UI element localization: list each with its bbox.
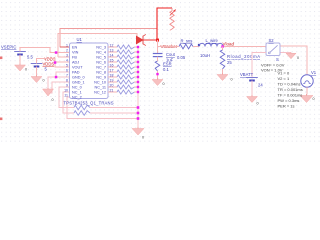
inductor L_wire 10uH (199, 43, 223, 46)
svg-text:25: 25 (227, 60, 232, 65)
svg-text:4: 4 (66, 59, 68, 63)
svg-text:0.1: 0.1 (163, 67, 169, 72)
svg-text:V2 = 1: V2 = 1 (278, 76, 290, 81)
svg-text:PW = 0.3ms: PW = 0.3ms (278, 98, 300, 103)
wire PAD to GND_0 (56, 72, 70, 77)
svg-text:V1: V1 (311, 70, 317, 75)
svg-text:S: S (276, 57, 279, 62)
resistor R_sns 0.05 (179, 44, 193, 49)
svg-text:1: 1 (66, 44, 68, 48)
wire EN row (60, 46, 70, 48)
wire Vtracker to R_sns (158, 40, 178, 47)
node dot below ESR (156, 73, 158, 75)
wire Vtracker vertical to diode junction (157, 8, 172, 41)
node Vload junction (221, 45, 224, 48)
svg-text:0: 0 (25, 68, 27, 72)
capacitor Cout 1uF (153, 53, 163, 55)
svg-text:TD = 0.04ms: TD = 0.04ms (278, 82, 301, 87)
wire ESR to ground (157, 71, 159, 78)
svg-text:NC_9: NC_9 (96, 76, 106, 80)
svg-text:NC_2: NC_2 (72, 96, 82, 100)
wire diode cathode to junction (143, 39, 158, 41)
svg-text:0.05: 0.05 (177, 55, 186, 60)
svg-text:NC_5: NC_5 (96, 56, 106, 60)
svg-text:0: 0 (163, 82, 165, 86)
svg-text:PER = 1s: PER = 1s (278, 104, 295, 109)
svg-text:24: 24 (258, 83, 263, 88)
ground below Rload (222, 73, 224, 75)
wire V1 to ground (306, 87, 308, 94)
svg-text:U1: U1 (77, 37, 83, 42)
node Vtracker junction (156, 39, 159, 42)
wire L_wire to Vload (223, 46, 266, 48)
svg-text:0: 0 (142, 136, 144, 140)
wire tick left edge bottom (0, 118, 2, 121)
wire VIN rail to diode anode (58, 34, 137, 58)
svg-text:0: 0 (257, 102, 259, 106)
svg-text:GND_0: GND_0 (72, 76, 85, 80)
svg-text:NC_3: NC_3 (96, 46, 106, 50)
svg-text:5: 5 (66, 64, 68, 68)
svg-text:VSEPIC: VSEPIC (1, 45, 16, 50)
svg-text:TR = 0.001ms: TR = 0.001ms (278, 87, 303, 92)
voltage source V1 (301, 75, 313, 87)
ground below VBATT (251, 95, 253, 97)
wire Cout to ESR (157, 57, 159, 61)
ground below VDDS (36, 75, 38, 77)
diode D1 (137, 36, 143, 43)
node dot PAD/GND_0 (55, 76, 58, 79)
svg-text:10uH: 10uH (200, 53, 210, 58)
svg-text:NC_0: NC_0 (72, 86, 82, 90)
wire S2 control to VBATT (252, 53, 266, 78)
svg-text:6: 6 (66, 69, 68, 73)
svg-text:S2: S2 (269, 38, 275, 43)
svg-text:GND_1: GND_1 (72, 81, 85, 85)
svg-text:Rload_200mA: Rload_200mA (227, 54, 260, 59)
wire tick left edge top (0, 57, 2, 60)
svg-text:TPS7B4253_Q1_TRANS: TPS7B4253_Q1_TRANS (64, 101, 114, 106)
svg-text:NC_6: NC_6 (96, 61, 106, 65)
node dot at L_wire (198, 44, 200, 46)
ground at IC GND pins (47, 88, 49, 89)
wire S2 control right to ground (281, 52, 292, 54)
wire FB row (58, 56, 70, 58)
wire S2 out to V1 (281, 46, 308, 75)
resistor on NC_1 loop (74, 111, 90, 116)
svg-text:3: 3 (66, 54, 68, 58)
svg-text:NC_7: NC_7 (96, 66, 106, 70)
ground at S2 control (290, 52, 292, 55)
wire VSEPIC to VIN (20, 48, 70, 53)
svg-text:8: 8 (66, 79, 68, 83)
svg-text:5.5: 5.5 (27, 55, 33, 60)
wire NC_2 loop (pin 11) (67, 97, 138, 119)
svg-text:NC_4: NC_4 (96, 51, 106, 55)
wire NC_0 loop (pin 9) (59, 87, 74, 108)
wire GND_1 to ground (48, 82, 70, 93)
svg-text:0: 0 (313, 97, 315, 101)
wire Vtracker top rail (60, 29, 157, 48)
wire NC bus to ground (137, 47, 139, 127)
svg-text:7: 7 (66, 74, 68, 78)
wire junction to Cout (157, 40, 159, 54)
wire R_sns to L_wire (158, 46, 180, 48)
svg-text:0: 0 (231, 78, 233, 82)
wire NC_1 loop (pin 10) (63, 92, 74, 113)
svg-text:ADJ: ADJ (72, 61, 79, 65)
resistor on NC_0 loop (74, 105, 90, 110)
wire GND_0 to ground (48, 77, 70, 88)
ground below V1 (306, 94, 308, 96)
svg-text:9: 9 (66, 84, 68, 88)
ground below VSEPIC (19, 64, 21, 66)
svg-text:V1 = 0: V1 = 0 (278, 71, 290, 76)
svg-text:0: 0 (43, 79, 45, 83)
node dot VIN (55, 51, 58, 54)
svg-text:2: 2 (66, 49, 68, 53)
svg-text:R_sns: R_sns (181, 39, 193, 44)
svg-text:FB: FB (72, 56, 77, 60)
svg-text:EN: EN (72, 46, 78, 50)
svg-text:VBATT: VBATT (240, 72, 254, 77)
svg-text:10: 10 (64, 89, 68, 93)
svg-text:L_wire: L_wire (206, 38, 219, 43)
resistor R4 top right (170, 11, 174, 29)
wire Rload to ground (222, 69, 224, 73)
svg-text:0: 0 (297, 56, 299, 60)
IC U1 TPS7B4253_Q1_TRANS body (70, 43, 109, 99)
svg-text:NC_11: NC_11 (94, 86, 106, 90)
svg-text:NC_1: NC_1 (72, 91, 82, 95)
resistor ESR 0.1 (155, 61, 160, 71)
switch S2 (266, 43, 280, 56)
svg-text:Cout: Cout (166, 52, 176, 57)
svg-text:Vload: Vload (223, 42, 235, 47)
resistor Rload_200mA 25 (222, 47, 224, 51)
svg-text:VIN: VIN (72, 51, 79, 55)
svg-text:0: 0 (52, 98, 54, 102)
ground below ESR (157, 78, 159, 80)
wire VDDS to ADJ/VOUT (37, 59, 71, 68)
node dot ADJ (54, 61, 57, 64)
svg-text:NC_10: NC_10 (94, 81, 106, 85)
svg-text:11: 11 (64, 94, 68, 98)
svg-text:TF = 0.001ms: TF = 0.001ms (278, 93, 303, 98)
svg-text:NC_12: NC_12 (94, 91, 106, 95)
svg-text:NC_8: NC_8 (96, 71, 106, 75)
ground below loops (137, 127, 139, 129)
node dots at loop junctions (137, 106, 140, 109)
svg-text:ESR: ESR (163, 62, 172, 67)
svg-text:VOUT: VOUT (72, 66, 83, 70)
svg-text:PAD: PAD (72, 71, 80, 75)
